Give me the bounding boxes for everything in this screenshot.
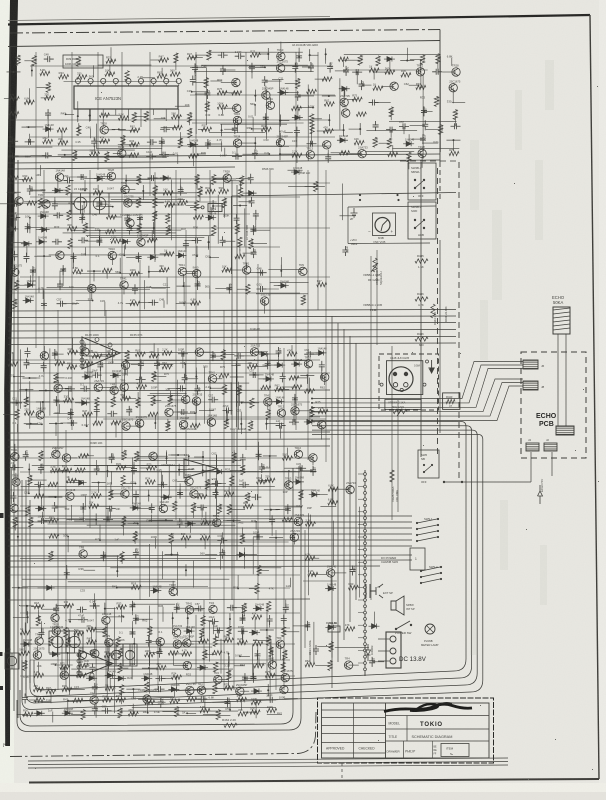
wire bbox=[28, 479, 30, 494]
wire bbox=[123, 521, 125, 535]
wire bbox=[330, 575, 332, 589]
svg-text:2.2K: 2.2K bbox=[34, 670, 40, 674]
wire bbox=[119, 129, 134, 131]
resistor bbox=[170, 72, 180, 76]
wire bbox=[131, 606, 133, 615]
transistor bbox=[418, 149, 426, 157]
svg-text:560: 560 bbox=[237, 225, 241, 230]
capacitor bbox=[256, 450, 262, 460]
resistor bbox=[267, 708, 277, 712]
svg-text:0.047: 0.047 bbox=[25, 449, 29, 456]
capacitor bbox=[257, 270, 267, 276]
svg-text:C48: C48 bbox=[86, 126, 92, 130]
svg-text:R18: R18 bbox=[35, 694, 40, 698]
svg-text:J4: J4 bbox=[528, 438, 531, 442]
wire bbox=[110, 47, 112, 61]
svg-text:C15: C15 bbox=[253, 226, 257, 231]
ground symbol near VR3 bbox=[351, 208, 358, 217]
wire bbox=[8, 545, 412, 547]
wire bbox=[151, 59, 164, 61]
wire bbox=[39, 201, 216, 203]
wire bbox=[26, 423, 42, 425]
svg-text:C48: C48 bbox=[44, 53, 49, 57]
wire bbox=[134, 536, 136, 544]
resistor bbox=[116, 466, 126, 470]
wire bbox=[176, 677, 178, 690]
svg-text:C48: C48 bbox=[253, 249, 257, 254]
transistor bbox=[452, 68, 460, 76]
resistor bbox=[121, 135, 125, 145]
wire bbox=[276, 508, 288, 510]
svg-text:R33: R33 bbox=[129, 139, 134, 143]
diode bbox=[253, 606, 264, 611]
svg-text:C21: C21 bbox=[12, 396, 17, 400]
svg-text:6.8K: 6.8K bbox=[191, 297, 197, 301]
svg-text:0.01: 0.01 bbox=[173, 152, 179, 156]
wire bbox=[267, 48, 269, 60]
capacitor bbox=[23, 451, 29, 461]
wire bbox=[309, 378, 311, 392]
wire bbox=[103, 555, 119, 557]
wire bbox=[100, 354, 112, 356]
wire bbox=[104, 302, 106, 316]
wire bbox=[48, 129, 50, 138]
svg-text:C62: C62 bbox=[361, 81, 365, 86]
svg-text:2SA733: 2SA733 bbox=[358, 145, 368, 149]
capacitor bbox=[220, 236, 226, 246]
svg-text:R36: R36 bbox=[79, 567, 85, 571]
wire bbox=[34, 255, 44, 257]
resistor bbox=[200, 628, 204, 638]
wire bbox=[91, 629, 106, 631]
wire bbox=[30, 426, 472, 697]
diode bbox=[34, 711, 45, 716]
svg-text:R62: R62 bbox=[224, 635, 229, 639]
wire bbox=[149, 519, 166, 521]
svg-text:6.8K: 6.8K bbox=[447, 55, 453, 59]
wire bbox=[14, 218, 16, 230]
wire bbox=[322, 95, 336, 97]
resistor bbox=[159, 268, 169, 272]
wire bbox=[48, 523, 221, 525]
transistor bbox=[223, 174, 231, 182]
wire bbox=[160, 483, 162, 510]
capacitor bbox=[70, 253, 76, 263]
svg-text:330: 330 bbox=[24, 408, 29, 412]
svg-text:R36: R36 bbox=[123, 517, 127, 522]
wire bbox=[356, 72, 358, 84]
wire bbox=[240, 182, 242, 193]
svg-text:4.7u: 4.7u bbox=[346, 66, 350, 72]
svg-text:2SC945P: 2SC945P bbox=[236, 683, 248, 687]
wire bbox=[112, 493, 125, 495]
svg-text:0.047: 0.047 bbox=[176, 602, 180, 609]
wire bbox=[333, 488, 350, 490]
capacitor bbox=[197, 696, 207, 702]
wire bbox=[31, 606, 39, 608]
resistor bbox=[188, 128, 192, 138]
svg-text:2SA733: 2SA733 bbox=[294, 513, 304, 517]
transistor bbox=[280, 685, 288, 693]
svg-text:0.1: 0.1 bbox=[232, 150, 236, 154]
capacitor bbox=[308, 62, 314, 72]
wire bbox=[140, 109, 142, 127]
resistor bbox=[230, 476, 234, 486]
svg-text:R47: R47 bbox=[8, 351, 14, 355]
svg-text:C33: C33 bbox=[372, 657, 376, 662]
wire bbox=[185, 391, 187, 399]
capacitor bbox=[276, 423, 286, 429]
ladder junction bbox=[364, 485, 367, 488]
svg-text:TR41: TR41 bbox=[208, 370, 215, 374]
wire bbox=[178, 109, 180, 127]
resistor bbox=[217, 91, 227, 95]
wire bbox=[111, 348, 113, 364]
svg-text:100P: 100P bbox=[151, 385, 158, 389]
resistor bbox=[104, 653, 114, 657]
svg-text:R33: R33 bbox=[106, 152, 110, 157]
resistor bbox=[34, 605, 44, 609]
transistor bbox=[110, 386, 118, 394]
wire bbox=[189, 117, 191, 125]
capacitor bbox=[283, 603, 289, 613]
capacitor bbox=[80, 386, 90, 392]
resistor bbox=[265, 673, 275, 677]
ladder junction bbox=[364, 618, 367, 621]
wire bbox=[107, 156, 125, 158]
diode bbox=[278, 283, 289, 288]
wire bbox=[142, 667, 156, 669]
resistor bbox=[131, 585, 141, 589]
wire bbox=[166, 450, 168, 458]
wire bbox=[267, 713, 282, 715]
transformer bbox=[5, 653, 19, 669]
wire bbox=[17, 284, 32, 286]
wire bbox=[245, 677, 257, 679]
wire bbox=[121, 52, 123, 460]
transistor bbox=[358, 149, 366, 157]
capacitor bbox=[218, 52, 228, 58]
resistor bbox=[194, 201, 198, 211]
wire bbox=[87, 363, 89, 377]
resistor bbox=[34, 673, 44, 677]
wire bbox=[400, 60, 414, 62]
wire bbox=[201, 508, 203, 518]
svg-text:OFF: OFF bbox=[418, 194, 424, 198]
svg-text:R18: R18 bbox=[243, 501, 248, 505]
wire bbox=[298, 95, 314, 97]
wire bbox=[222, 92, 234, 94]
wire bbox=[71, 668, 233, 670]
svg-text:344P: 344P bbox=[83, 664, 90, 668]
svg-text:C57: C57 bbox=[195, 64, 199, 69]
resistor bbox=[345, 627, 355, 631]
svg-text:R36: R36 bbox=[190, 410, 196, 414]
wire bbox=[228, 656, 230, 667]
table line bbox=[322, 742, 386, 744]
svg-text:2.2K: 2.2K bbox=[118, 112, 124, 116]
wire bbox=[121, 607, 123, 622]
wire bbox=[331, 633, 333, 658]
wire bbox=[110, 509, 112, 519]
capacitor bbox=[294, 127, 300, 137]
wire bbox=[220, 639, 222, 674]
wire bbox=[248, 66, 265, 68]
capacitor bbox=[90, 603, 100, 609]
wire bbox=[163, 300, 165, 308]
wire bbox=[119, 258, 121, 273]
resistor bbox=[48, 482, 58, 486]
svg-text:0.1: 0.1 bbox=[159, 630, 163, 634]
svg-text:0.1: 0.1 bbox=[234, 126, 238, 130]
svg-text:C33: C33 bbox=[80, 589, 86, 593]
wire bbox=[142, 77, 155, 79]
wire bbox=[155, 202, 164, 204]
wire bbox=[151, 515, 153, 522]
wire bbox=[82, 541, 289, 543]
svg-text:0.01: 0.01 bbox=[285, 604, 289, 610]
wire bbox=[195, 93, 208, 95]
capacitor bbox=[96, 199, 102, 209]
transistor bbox=[62, 454, 70, 462]
transistor bbox=[276, 64, 284, 72]
top border echo line bbox=[8, 17, 330, 21]
capacitor bbox=[285, 504, 291, 514]
wire bbox=[195, 368, 197, 377]
wire bbox=[115, 109, 117, 115]
wire bbox=[178, 464, 180, 476]
resistor bbox=[257, 566, 261, 576]
wire bbox=[424, 110, 433, 112]
wire bbox=[262, 364, 280, 366]
wire bbox=[65, 430, 67, 690]
svg-text:DRAWER: DRAWER bbox=[387, 750, 401, 754]
IC1 pin 4 bbox=[113, 78, 118, 83]
wire bbox=[20, 349, 22, 408]
ladder junction bbox=[364, 592, 367, 595]
wire bbox=[133, 462, 135, 470]
svg-text:C148 JL8 CH05: C148 JL8 CH05 bbox=[390, 356, 410, 360]
wire bbox=[64, 667, 66, 677]
svg-text:47uF: 47uF bbox=[345, 246, 349, 252]
svg-text:C21: C21 bbox=[264, 151, 270, 155]
wire bbox=[139, 423, 141, 431]
wire bbox=[287, 448, 289, 459]
svg-text:4.7K: 4.7K bbox=[284, 650, 288, 656]
svg-text:2SC1675: 2SC1675 bbox=[165, 404, 177, 408]
wire bbox=[282, 386, 297, 388]
resistor bbox=[129, 142, 139, 146]
transistor bbox=[416, 68, 424, 76]
wire bbox=[28, 363, 258, 365]
wire bbox=[138, 699, 278, 701]
wire bbox=[49, 348, 51, 415]
wire bbox=[359, 507, 361, 598]
diode bbox=[309, 492, 320, 497]
wire bbox=[347, 153, 363, 155]
wire bbox=[8, 316, 456, 318]
diode bbox=[273, 399, 284, 404]
svg-text:SP8W: SP8W bbox=[406, 603, 414, 607]
resistor bbox=[90, 152, 100, 156]
wire bbox=[270, 674, 286, 676]
svg-text:0.01: 0.01 bbox=[131, 480, 137, 484]
wire bbox=[295, 410, 313, 412]
svg-text:R62: R62 bbox=[43, 136, 48, 140]
svg-text:6.8K: 6.8K bbox=[40, 68, 46, 72]
wire bbox=[137, 392, 139, 403]
wire bbox=[71, 230, 171, 232]
svg-text:R75: R75 bbox=[217, 87, 222, 91]
resistor bbox=[250, 710, 260, 714]
wire bbox=[267, 402, 269, 410]
svg-text:1N4148: 1N4148 bbox=[293, 166, 303, 170]
svg-text:R62: R62 bbox=[359, 56, 363, 61]
wire bbox=[285, 506, 302, 508]
resistor bbox=[200, 708, 210, 712]
capacitor bbox=[97, 361, 103, 371]
wire bbox=[70, 674, 81, 676]
svg-text:1N4148: 1N4148 bbox=[143, 672, 153, 676]
wire bbox=[190, 94, 335, 96]
svg-text:1N4148: 1N4148 bbox=[81, 397, 91, 401]
wire bbox=[71, 52, 73, 430]
svg-text:4.7u: 4.7u bbox=[118, 301, 124, 305]
diode bbox=[130, 505, 141, 510]
wire bbox=[107, 192, 187, 194]
transformer bbox=[49, 631, 66, 653]
wire bbox=[210, 256, 219, 258]
svg-text:47K: 47K bbox=[391, 108, 395, 113]
svg-text:47: 47 bbox=[449, 404, 452, 408]
resistor bbox=[105, 152, 109, 162]
svg-text:R36: R36 bbox=[422, 55, 426, 60]
svg-text:R33: R33 bbox=[50, 552, 54, 557]
capacitor bbox=[190, 76, 196, 86]
svg-text:47uF: 47uF bbox=[223, 404, 229, 408]
wire bbox=[8, 330, 456, 332]
ladder junction bbox=[364, 542, 367, 545]
wire bbox=[144, 280, 146, 309]
wire bbox=[24, 623, 26, 633]
svg-text:C7 0.047/2B: C7 0.047/2B bbox=[245, 225, 249, 240]
capacitor bbox=[213, 627, 223, 633]
resistor bbox=[78, 663, 88, 667]
svg-text:R33: R33 bbox=[250, 239, 254, 244]
svg-text:TR4B ESC945P: TR4B ESC945P bbox=[138, 688, 158, 692]
IC1 pin 9 bbox=[176, 78, 181, 83]
wire bbox=[30, 65, 330, 67]
wire bbox=[53, 413, 70, 415]
wire bbox=[379, 142, 390, 144]
wire bbox=[236, 358, 238, 427]
wire bbox=[317, 52, 319, 310]
resistor bbox=[216, 710, 220, 720]
svg-text:C48: C48 bbox=[180, 361, 186, 365]
svg-text:1K: 1K bbox=[373, 83, 376, 87]
wire bbox=[8, 145, 330, 147]
capacitor bbox=[78, 617, 88, 623]
wire bbox=[267, 684, 269, 696]
svg-text:2SA733: 2SA733 bbox=[346, 481, 356, 485]
wire bbox=[452, 102, 465, 104]
resistor bbox=[122, 450, 126, 460]
wire bbox=[169, 391, 171, 399]
wire bbox=[42, 512, 44, 521]
svg-text:R47: R47 bbox=[187, 52, 192, 56]
wire bbox=[16, 66, 18, 119]
resistor bbox=[438, 125, 442, 135]
wire bbox=[26, 606, 28, 616]
resistor bbox=[109, 490, 113, 500]
capacitor bbox=[249, 372, 259, 378]
wire bbox=[565, 334, 567, 426]
transistor bbox=[126, 219, 134, 227]
wire bbox=[171, 180, 173, 241]
svg-text:C33: C33 bbox=[135, 615, 139, 620]
wire bbox=[300, 470, 313, 472]
wire bbox=[155, 538, 157, 549]
resistor bbox=[77, 126, 81, 136]
resistor bbox=[103, 627, 107, 637]
wire bbox=[269, 97, 271, 105]
svg-text:R47: R47 bbox=[126, 351, 130, 356]
capacitor bbox=[159, 137, 165, 147]
wire bbox=[362, 84, 372, 86]
svg-text:1K: 1K bbox=[66, 475, 69, 479]
transistor bbox=[207, 418, 215, 426]
wire bbox=[81, 205, 83, 218]
svg-text:6.8K: 6.8K bbox=[218, 113, 224, 117]
diode bbox=[110, 373, 121, 378]
wire bbox=[315, 664, 330, 666]
capacitor bbox=[369, 99, 379, 105]
svg-text:1N4148: 1N4148 bbox=[170, 683, 180, 687]
wire bbox=[243, 153, 255, 155]
wire bbox=[30, 659, 290, 661]
resistor bbox=[193, 215, 203, 219]
wire bbox=[233, 204, 247, 206]
bus y390 bbox=[8, 390, 330, 391]
transistor bbox=[277, 52, 285, 60]
wire bbox=[52, 470, 317, 472]
svg-text:EXT SP: EXT SP bbox=[383, 591, 393, 595]
svg-text:R75: R75 bbox=[250, 49, 255, 53]
wire bbox=[187, 612, 189, 624]
capacitor bbox=[263, 113, 269, 123]
capacitor bbox=[232, 154, 242, 160]
svg-text:R75: R75 bbox=[220, 365, 226, 369]
resistor bbox=[67, 365, 77, 369]
resistor bbox=[449, 151, 459, 155]
resistor bbox=[173, 501, 177, 511]
wire bbox=[332, 490, 334, 503]
wire bbox=[175, 58, 177, 70]
wire bbox=[298, 48, 300, 57]
svg-text:330: 330 bbox=[77, 71, 82, 75]
wire bbox=[126, 425, 142, 427]
wire bbox=[93, 65, 95, 77]
svg-text:R33: R33 bbox=[201, 629, 205, 634]
wire bbox=[48, 496, 62, 498]
mid vertical rails bbox=[231, 180, 233, 600]
ladder junction bbox=[364, 473, 367, 476]
svg-text:0.047: 0.047 bbox=[135, 547, 139, 554]
ladder junction bbox=[364, 655, 367, 658]
wire bbox=[280, 120, 289, 122]
svg-text:TR41: TR41 bbox=[213, 514, 220, 518]
wire bbox=[223, 354, 234, 356]
